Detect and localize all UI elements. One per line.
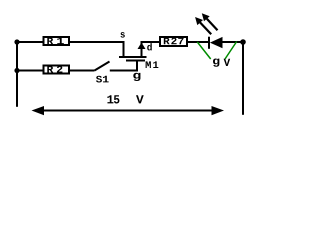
switch S1: [95, 62, 110, 83]
resistor R2: [44, 66, 70, 74]
transistor M1 (MOSFET): [119, 43, 158, 69]
pin label s: [121, 32, 125, 37]
wire drain corner to R27: [141, 41, 161, 43]
resistor R27: [160, 37, 187, 46]
wire R2 row left: [16, 70, 43, 72]
label V (supply): [136, 95, 144, 103]
resistor R1: [44, 37, 70, 45]
wire R2 to switch: [69, 70, 95, 72]
wire LED anode to right node: [222, 41, 243, 43]
node junction dot left bottom: [14, 68, 19, 73]
wire right rail vertical: [242, 41, 244, 115]
node junction dot right: [240, 39, 246, 45]
wire R27 to LED cathode: [187, 41, 209, 43]
LED light emission arrow lower: [195, 17, 211, 34]
pin label g: [133, 73, 140, 81]
label 9 (LED voltage): [213, 59, 219, 67]
gate bar: [126, 60, 145, 62]
label 15: [107, 95, 113, 103]
pin label d: [147, 43, 152, 50]
wire corner down to M1 source: [123, 41, 125, 57]
wire M1 drain vertical: [141, 42, 143, 57]
probe line green left: [197, 42, 210, 59]
wire switch to gate corner: [110, 70, 138, 72]
LED light emission arrow upper: [202, 13, 218, 30]
node junction dot left top: [14, 39, 19, 44]
LED diode triangle: [210, 37, 223, 48]
wire R1 row left: [16, 41, 43, 43]
wire R1 to corner: [69, 41, 125, 43]
wire gate stub vertical: [136, 61, 138, 72]
drain arrow: [138, 43, 146, 50]
LED diode (cathode bar): [208, 37, 210, 49]
channel bar: [119, 56, 147, 58]
probe line green right: [225, 42, 237, 60]
label M1: [146, 61, 151, 68]
voltage span arrow 15 V: [32, 106, 225, 115]
label V (LED voltage): [224, 59, 231, 66]
wire left rail vertical: [16, 41, 18, 107]
